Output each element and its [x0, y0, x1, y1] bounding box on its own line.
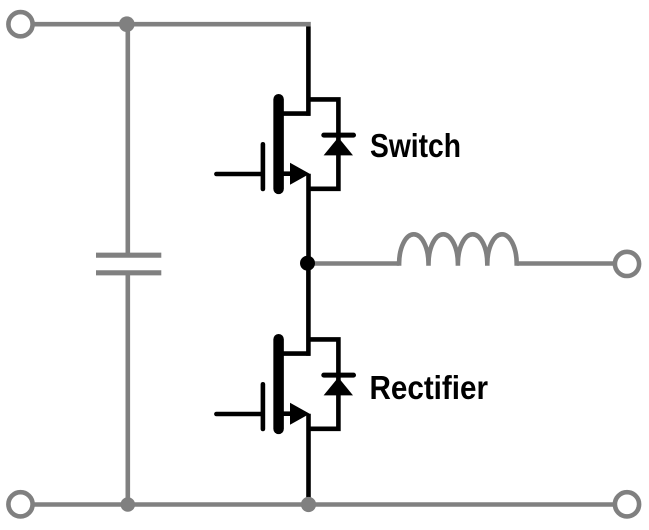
svg-text:Rectifier: Rectifier — [370, 369, 489, 406]
source arrow Q1 — [290, 163, 310, 185]
wire top rail — [21, 22, 311, 27]
terminal right (output) — [615, 252, 639, 276]
terminal bottom-right — [615, 492, 639, 516]
capacitor C1 — [96, 255, 161, 273]
junction bottom rail / rectifier source — [301, 497, 316, 512]
channel bar Q1 — [273, 99, 284, 189]
inductor L1 — [399, 234, 517, 266]
gate bar Q2 — [261, 384, 266, 429]
gate bar Q1 — [261, 144, 266, 189]
diode D1 triangle — [324, 137, 353, 155]
wire drain lead Q2 — [306, 264, 311, 356]
diode D2 cathode bar — [324, 373, 354, 378]
wire source lead Q2 — [306, 414, 311, 500]
wire bottom rail — [21, 502, 628, 507]
junction top rail / capacitor — [119, 16, 135, 32]
source arrow Q2 — [290, 403, 310, 425]
wire capacitor bottom lead — [126, 275, 131, 505]
transistor Q1 (high-side switch MOSFET) — [216, 27, 353, 264]
wire capacitor top lead — [126, 24, 131, 253]
wire body-diode branch Q1 — [308, 99, 338, 188]
wire source stub Q2 — [283, 411, 293, 416]
wire drain stub Q2 — [283, 351, 311, 356]
terminal bottom-left — [8, 492, 32, 516]
wire gate lead Q1 — [216, 172, 262, 177]
terminal top-left — [8, 12, 32, 36]
wire drain stub Q1 — [283, 111, 311, 116]
channel bar Q2 — [273, 339, 284, 429]
wire inductor to right terminal — [517, 261, 627, 266]
wire switch node to inductor — [308, 261, 399, 266]
wire gate lead Q2 — [216, 412, 262, 417]
wire source stub Q1 — [283, 171, 293, 176]
svg-text:Switch: Switch — [370, 127, 461, 164]
transistor Q2 (low-side rectifier MOSFET) — [216, 264, 353, 500]
diode D2 triangle — [324, 377, 353, 395]
diode D1 cathode bar — [324, 133, 354, 138]
wire source lead Q1 — [306, 174, 311, 264]
junction bottom rail / capacitor — [121, 497, 136, 512]
wire body-diode branch Q2 — [308, 339, 338, 428]
wire drain lead Q1 — [306, 27, 311, 116]
node switch/rectifier/inductor junction — [300, 256, 315, 271]
